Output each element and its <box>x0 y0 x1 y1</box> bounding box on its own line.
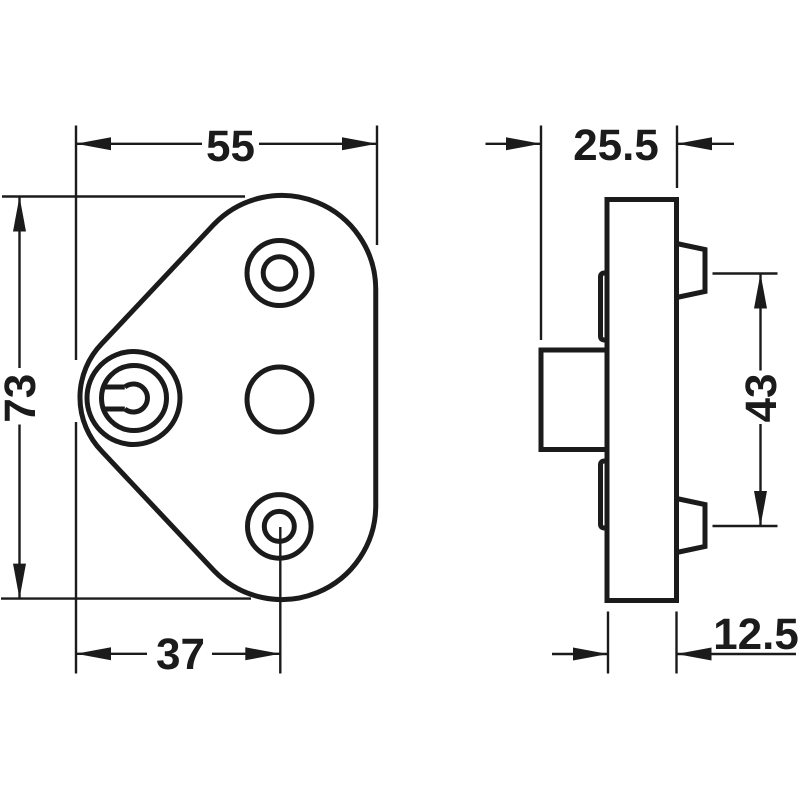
dim 55 label <box>207 131 253 162</box>
dim 43 label <box>745 375 776 422</box>
dim 37 label <box>157 638 203 669</box>
dim 55 extension right <box>376 126 378 246</box>
dim 37 arrow right <box>245 647 280 660</box>
dim 25.5 tail left <box>486 143 542 145</box>
dim 12.5 extension left <box>607 612 609 674</box>
dim 43 line <box>759 274 761 527</box>
dim 55 extension left <box>75 126 77 674</box>
keyhole inner circle <box>102 366 167 431</box>
side view block <box>541 350 607 450</box>
dim 73 line <box>18 197 20 599</box>
plate outline <box>80 195 376 599</box>
dim 25.5 extension right <box>676 126 678 189</box>
side view plate rect <box>607 200 677 601</box>
dim 12.5 label <box>716 618 798 649</box>
dim 25.5 arrow right <box>677 137 712 150</box>
side view lower bump <box>677 499 706 553</box>
dim 73 extension bottom <box>1 597 251 599</box>
dim 43 extension bottom <box>713 525 778 527</box>
dim 25.5 arrow left <box>506 137 541 150</box>
dim 37 extension right <box>279 527 281 674</box>
bottom hole outer <box>247 495 311 559</box>
dim 73 extension top <box>2 195 245 197</box>
dim 73 label <box>4 375 35 420</box>
dim 12.5 tail right <box>677 653 797 655</box>
middle hole <box>247 367 312 432</box>
dim 55 arrow left <box>76 137 111 150</box>
dim 43 arrow top <box>754 274 767 309</box>
top hole outer <box>247 241 312 306</box>
top hole inner <box>263 257 296 290</box>
dim 25.5 label <box>575 129 658 160</box>
dim 73 arrow top <box>13 197 26 232</box>
dim 12.5 extension right <box>675 612 677 674</box>
side view lower tab <box>601 461 608 528</box>
key slot bottom line <box>104 407 125 412</box>
dim 25.5 tail right <box>677 143 734 145</box>
dim 43 arrow bottom <box>754 491 767 526</box>
bottom hole inner <box>264 511 294 541</box>
side view upper bump <box>677 244 706 298</box>
dim 12.5 arrow left <box>573 648 608 661</box>
dim 37 arrow left <box>76 647 111 660</box>
dim 73 arrow bottom <box>13 564 26 599</box>
side view upper tab <box>601 273 608 340</box>
keyhole outer circle <box>87 352 180 445</box>
key slot top line <box>104 385 125 390</box>
dim 12.5 arrow right <box>677 648 712 661</box>
dim 55 arrow right <box>342 137 377 150</box>
dim 25.5 extension left <box>540 126 542 341</box>
dim 55 line <box>76 143 377 145</box>
dim 37 line <box>76 653 280 655</box>
key slot circle <box>125 384 148 412</box>
dim 12.5 tail left <box>552 653 608 655</box>
dim 43 extension top <box>713 272 778 274</box>
